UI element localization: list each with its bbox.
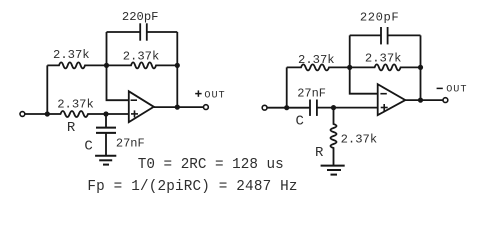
wire junction up to top row bbox=[286, 67, 288, 107]
capacitor C2 220pF left feedback bbox=[107, 23, 178, 40]
ground (right) bbox=[321, 166, 345, 175]
wire cap down right side bbox=[176, 32, 178, 65]
node left summing node bbox=[104, 63, 109, 68]
wire junction down to cap C bbox=[105, 114, 107, 128]
svg-text:T0 = 2RC = 128 us: T0 = 2RC = 128 us bbox=[138, 157, 284, 173]
svg-text:2.37k: 2.37k bbox=[57, 98, 94, 112]
svg-text:R: R bbox=[67, 120, 76, 136]
node output junction bbox=[175, 105, 180, 110]
svg-text:2.37k: 2.37k bbox=[123, 49, 160, 63]
node output junction (right) bbox=[418, 98, 423, 103]
wire junction up to top row bbox=[46, 65, 48, 114]
svg-text:220pF: 220pF bbox=[122, 10, 159, 24]
node feedback right bbox=[175, 63, 180, 68]
wire input to junction bbox=[267, 107, 286, 109]
capacitor C4 220pF right feedback bbox=[350, 27, 421, 44]
input terminal (left circuit) bbox=[20, 112, 25, 117]
capacitor C 27nF left shunt bbox=[96, 128, 116, 156]
resistor R2 2.37k left feedback bbox=[107, 62, 178, 68]
node right summing node bbox=[347, 65, 352, 70]
svg-text:Fp = 1/(2piRC) = 2487 Hz: Fp = 1/(2piRC) = 2487 Hz bbox=[87, 179, 297, 195]
resistor R3 2.37k top-left (right circuit) bbox=[287, 64, 350, 70]
svg-text:27nF: 27nF bbox=[297, 87, 326, 101]
svg-text:27nF: 27nF bbox=[116, 136, 145, 150]
svg-text:C: C bbox=[296, 114, 304, 130]
node right input junction bbox=[284, 105, 289, 110]
wire cap down right side bbox=[420, 35, 422, 67]
svg-text:2.37k: 2.37k bbox=[53, 48, 90, 62]
op-amp U1 bbox=[129, 91, 154, 122]
wire feedback down to output bbox=[176, 65, 178, 107]
svg-text:OUT: OUT bbox=[204, 91, 225, 102]
svg-text:2.37k: 2.37k bbox=[341, 132, 378, 146]
node left input junction bbox=[45, 111, 50, 116]
svg-text:2.37k: 2.37k bbox=[365, 52, 402, 66]
label + OUT bbox=[195, 90, 201, 96]
wire junction to non-inverting input bbox=[106, 113, 129, 115]
wire input to junction bbox=[25, 113, 47, 115]
wire summing node to inverting input bbox=[350, 67, 378, 93]
output terminal (left) bbox=[204, 105, 209, 110]
wire op-amp output bbox=[154, 106, 204, 108]
svg-text:220pF: 220pF bbox=[360, 10, 399, 24]
capacitor C 27nF right series bbox=[287, 100, 334, 116]
wire junction to non-inverting input bbox=[334, 107, 378, 109]
label - OUT bbox=[437, 87, 443, 89]
wire summing node to inverting input bbox=[107, 65, 129, 100]
svg-text:2.37k: 2.37k bbox=[298, 53, 335, 67]
output terminal (right) bbox=[443, 98, 448, 103]
wire feedback down to output (right circuit) bbox=[420, 67, 422, 100]
svg-text:C: C bbox=[84, 139, 92, 155]
input terminal (right circuit) bbox=[262, 105, 267, 110]
svg-text:OUT: OUT bbox=[446, 85, 467, 96]
resistor R1 2.37k top-left bbox=[47, 62, 106, 68]
resistor R 2.37k left series input bbox=[47, 111, 106, 117]
node plus input junction bbox=[103, 111, 108, 116]
wire op-amp output bbox=[405, 99, 443, 101]
node shunt junction bbox=[331, 105, 336, 110]
wire summing node up to cap branch bbox=[106, 32, 108, 65]
node feedback right (right circuit) bbox=[418, 65, 423, 70]
ground (left) bbox=[95, 156, 116, 165]
wire summing node up to cap branch bbox=[349, 35, 351, 67]
resistor R 2.37k right shunt bbox=[331, 108, 337, 166]
svg-text:R: R bbox=[315, 145, 324, 161]
resistor R4 2.37k right feedback bbox=[350, 64, 421, 70]
op-amp U2 bbox=[378, 84, 406, 115]
